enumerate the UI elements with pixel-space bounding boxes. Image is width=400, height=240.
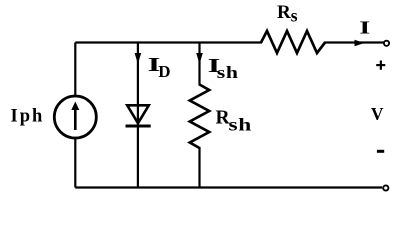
svg-text:I: I — [359, 19, 370, 38]
resistor Rsh — [190, 85, 209, 149]
svg-text:sh: sh — [229, 114, 252, 135]
resistor Rs — [261, 31, 325, 53]
svg-text:R: R — [277, 2, 291, 23]
svg-text:V: V — [371, 104, 384, 124]
wire top rail left segment — [75, 41, 262, 43]
diode D1 — [126, 105, 151, 126]
label ID — [148, 53, 171, 81]
terminal negative output node — [383, 185, 388, 190]
label minus — [377, 150, 384, 153]
label Ish — [208, 54, 239, 83]
terminal positive output node — [384, 41, 389, 46]
svg-text:D: D — [158, 62, 170, 81]
wire shunt branch lower — [198, 147, 200, 188]
wire shunt branch upper — [198, 43, 200, 86]
wire left vertical — [74, 43, 76, 188]
current arrow I — [355, 40, 365, 47]
svg-text:Iph: Iph — [11, 106, 45, 126]
wire bottom rail — [75, 186, 382, 188]
label + — [376, 61, 385, 70]
current arrow ID — [135, 53, 142, 64]
svg-text:s: s — [291, 6, 298, 26]
wire diode branch — [137, 43, 139, 188]
current source Iph — [54, 96, 96, 138]
label Rsh — [216, 108, 252, 135]
svg-text:sh: sh — [217, 64, 239, 82]
label Rs — [277, 2, 298, 25]
current arrow Ish — [196, 53, 203, 64]
wire top rail right segment — [324, 41, 384, 43]
